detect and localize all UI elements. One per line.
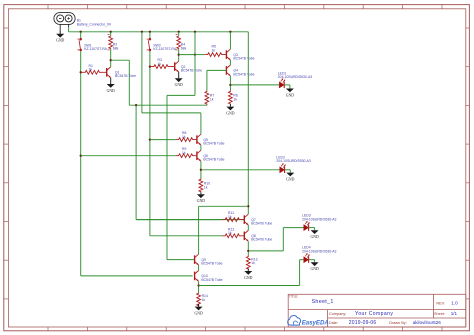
wire Q1 emitter <box>110 78 112 84</box>
LED LED1 <box>279 78 285 88</box>
resistor R4 <box>177 36 181 49</box>
svg-text:2019-09-06: 2019-09-06 <box>349 320 377 326</box>
wire SW2 column <box>149 51 151 236</box>
resistor R6 <box>229 90 233 104</box>
svg-text:GND: GND <box>310 235 318 239</box>
resistor R11 <box>136 219 222 221</box>
ground for R10 <box>197 194 205 203</box>
svg-text:68k: 68k <box>113 46 119 50</box>
junction SW1/R1 <box>80 71 82 73</box>
LED LED3 <box>304 221 310 231</box>
wire Q7 emitter to Q8 collector <box>247 225 249 230</box>
svg-text:BC547B Tube: BC547B Tube <box>201 262 222 266</box>
wire SW1 column <box>80 51 82 276</box>
svg-text:GND: GND <box>286 177 294 181</box>
transistor Q2 <box>175 61 179 72</box>
svg-text:1k: 1k <box>233 97 237 101</box>
svg-text:BC547B Tube: BC547B Tube <box>233 72 254 76</box>
transistor Q3 <box>226 49 230 60</box>
junction Q6 emitter node <box>200 169 202 171</box>
svg-text:1k: 1k <box>212 48 216 52</box>
svg-text:204-10SURD/S530-A3: 204-10SURD/S530-A3 <box>278 75 312 79</box>
svg-text:Sheet:: Sheet: <box>434 312 445 316</box>
switch SW1 <box>77 38 81 51</box>
svg-text:BC547B Tube: BC547B Tube <box>233 57 254 61</box>
resistor R3 <box>150 65 175 69</box>
junction top rail x=178.7 <box>178 31 180 33</box>
svg-text:GND: GND <box>244 276 252 280</box>
svg-text:1k: 1k <box>204 185 208 189</box>
junction SW2/R3 <box>149 65 151 67</box>
junction SW2/R8 <box>149 138 151 140</box>
junction Q4 emitter node <box>229 84 231 86</box>
wire LED1 anode <box>230 84 279 86</box>
junction coupling x136 <box>135 104 137 106</box>
ground for Q1 <box>107 84 115 93</box>
ground for R14 <box>194 307 202 316</box>
svg-text:KZ-1107ST-RA: KZ-1107ST-RA <box>84 47 107 51</box>
wire right rail down <box>247 32 249 214</box>
resistor R14 <box>197 293 201 306</box>
svg-text:BC547B Tube: BC547B Tube <box>203 142 224 146</box>
wire Q9 base net <box>167 94 195 96</box>
transistor Q7 <box>244 214 248 225</box>
svg-text:GND: GND <box>286 93 294 97</box>
svg-text:GND: GND <box>107 89 115 93</box>
svg-text:Date:: Date: <box>329 321 338 325</box>
wire LED4 cathode <box>309 259 315 261</box>
resistor R7 <box>205 90 209 105</box>
svg-text:Battery_Connector_9V: Battery_Connector_9V <box>77 22 112 26</box>
wire Q3 collector from rail <box>229 32 231 49</box>
wire R2 top lead <box>110 32 112 36</box>
svg-text:TITLE:: TITLE: <box>289 294 299 298</box>
svg-text:1.0: 1.0 <box>451 301 458 306</box>
wire LED3 cathode <box>309 227 315 229</box>
svg-text:BC547B Tube: BC547B Tube <box>251 222 272 226</box>
svg-text:BC547B Tube: BC547B Tube <box>203 158 224 162</box>
wire Q8 emitter down <box>247 241 249 255</box>
resistor R9 <box>81 155 176 157</box>
svg-text:1k: 1k <box>182 135 186 139</box>
wire LED4 feed <box>199 285 300 287</box>
wire Q10 base row <box>81 275 193 277</box>
switch SW2 <box>147 38 151 51</box>
wire R4 to Q2 collector <box>178 49 180 61</box>
wire LED2 cathode <box>285 169 291 171</box>
junction Q8 emitter node <box>247 250 249 252</box>
ground for LED4 <box>310 262 318 271</box>
ground for LED3 <box>310 230 318 239</box>
ground for Q2 <box>175 78 183 87</box>
svg-text:1k: 1k <box>228 215 232 219</box>
transistor Q10 <box>195 271 199 282</box>
pin mark R4 bottom <box>176 49 178 51</box>
pin mark R2 top <box>108 34 110 36</box>
junction top rail x=141.9 <box>141 31 143 33</box>
ground for battery <box>56 30 64 42</box>
wire R6 to gnd <box>229 104 231 107</box>
svg-text:1k: 1k <box>251 261 255 265</box>
svg-text:KZ-1107ST-RA: KZ-1107ST-RA <box>153 47 176 51</box>
resistor R1 <box>81 70 107 74</box>
junction top rail x=149.9 <box>149 31 151 33</box>
svg-text:1k: 1k <box>89 68 93 72</box>
svg-text:68k: 68k <box>181 46 187 50</box>
svg-text:1k: 1k <box>228 231 232 235</box>
ground for R13 <box>244 271 252 280</box>
LED LED4 <box>304 253 310 263</box>
title block grid <box>288 294 466 327</box>
wire R13 to gnd <box>247 269 249 272</box>
wire R2 to Q1 collector <box>110 49 112 67</box>
svg-text:BC547B Tube: BC547B Tube <box>201 278 222 282</box>
resistor R5 <box>195 54 205 56</box>
junction Q1 collector node <box>110 59 112 61</box>
wire Q4 emitter down <box>229 76 231 91</box>
junction rail drop/R5 <box>194 53 196 55</box>
junction right rail branch <box>247 205 249 207</box>
svg-text:Drawn By:: Drawn By: <box>389 321 407 325</box>
ground for R6 <box>226 107 234 116</box>
svg-text:GND: GND <box>194 311 202 315</box>
wire LED1 cathode <box>284 84 290 86</box>
wire Q1 coupling <box>111 59 130 61</box>
svg-text:REV:: REV: <box>436 301 445 305</box>
svg-text:BC547B Tube: BC547B Tube <box>115 74 136 78</box>
svg-text:GND: GND <box>310 267 318 271</box>
svg-text:GND: GND <box>56 39 64 43</box>
wire Q6 emitter down <box>200 161 202 178</box>
wire Q4 base row <box>207 69 227 71</box>
svg-text:1k: 1k <box>202 298 206 302</box>
svg-text:1/1: 1/1 <box>451 311 458 316</box>
svg-text:EasyEDA: EasyEDA <box>302 320 329 327</box>
junction top rail x=195.0 <box>194 31 196 33</box>
svg-text:GND: GND <box>197 199 205 203</box>
battery connector B1 <box>54 13 75 31</box>
svg-text:akilovilnur626: akilovilnur626 <box>413 320 442 325</box>
wire Q2 emitter <box>178 72 180 78</box>
EasyEDA logo <box>288 316 301 326</box>
svg-text:1k: 1k <box>210 97 214 101</box>
wire Q3 emitter to Q4 collector <box>229 60 231 65</box>
wire branch to Q9 collector <box>199 205 249 207</box>
svg-text:BC547B Tube: BC547B Tube <box>181 69 202 73</box>
svg-text:BC547B Tube: BC547B Tube <box>251 238 272 242</box>
ground for LED1 <box>286 89 294 98</box>
junction Q2 collector node <box>178 53 180 55</box>
junction SW1/R9 <box>80 155 82 157</box>
wire R10 to gnd <box>200 193 202 195</box>
wire SW1 top <box>80 32 82 38</box>
wire Q10 emitter down <box>198 281 200 292</box>
resistor R13 <box>246 255 250 269</box>
pin mark R2 bottom <box>108 49 110 51</box>
pin mark R4 top <box>176 34 178 36</box>
svg-text:1k: 1k <box>182 151 186 155</box>
resistor R10 <box>199 179 203 193</box>
svg-text:Sheet_1: Sheet_1 <box>312 299 334 305</box>
transistor Q4 <box>226 65 230 76</box>
svg-text:204-10SURD/S530-A3: 204-10SURD/S530-A3 <box>302 249 336 253</box>
svg-text:GND: GND <box>226 111 234 115</box>
transistor Q6 <box>197 150 201 161</box>
wire R14 to gnd <box>198 304 200 306</box>
LED LED2 <box>280 163 286 173</box>
resistor R2 <box>109 36 113 49</box>
wire R5 row from Q2 collector <box>179 54 195 56</box>
wire R4 top lead <box>178 32 180 36</box>
wire top power rail <box>69 31 249 33</box>
transistor Q8 <box>244 230 248 241</box>
wire x136 to R11 row <box>135 105 137 219</box>
junction top rail x=110.7 <box>110 31 112 33</box>
svg-text:204-10SURD/S530-A3: 204-10SURD/S530-A3 <box>276 159 310 163</box>
transistor Q1 <box>107 67 111 78</box>
transistor Q5 <box>197 134 201 145</box>
junction top rail x=80.7 <box>80 31 82 33</box>
wire LED2 anode <box>201 169 280 171</box>
junction top rail x=230.4 <box>229 31 231 33</box>
wire rail drop x141.9 <box>141 32 143 113</box>
svg-text:204-10SURD/S530-A3: 204-10SURD/S530-A3 <box>302 217 336 221</box>
ground for LED2 <box>286 173 294 182</box>
wire LED3 feed <box>248 250 283 252</box>
svg-text:Your Company: Your Company <box>355 311 393 317</box>
wire SW2 top <box>149 32 151 38</box>
wire rail drop x195 <box>194 32 196 96</box>
junction Q10 emitter node <box>197 284 199 286</box>
svg-text:GND: GND <box>175 83 183 87</box>
svg-text:Company:: Company: <box>329 312 346 316</box>
resistor R12 <box>150 235 223 237</box>
transistor Q9 <box>195 254 199 265</box>
svg-text:1k: 1k <box>158 62 162 66</box>
resistor R8 <box>150 139 176 141</box>
wire Q5 emitter to Q6 collector <box>200 145 202 150</box>
wire Q9 emitter to Q10 collector <box>198 265 200 271</box>
